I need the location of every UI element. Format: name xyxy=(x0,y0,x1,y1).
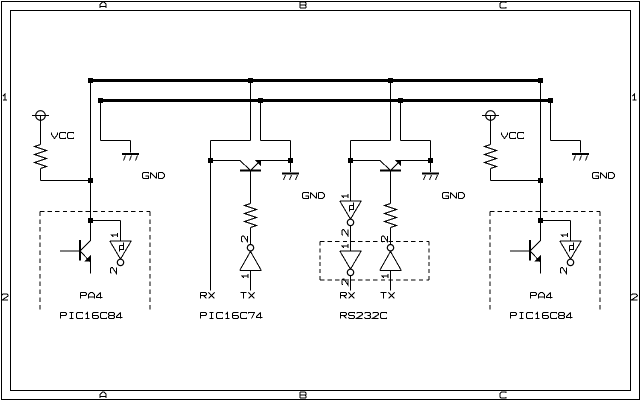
PIC16C74 label xyxy=(201,313,263,319)
inverter U5 C tx (output top) xyxy=(380,269,402,271)
junction B ground node xyxy=(288,158,293,163)
wire B collector branch horizontal xyxy=(211,140,251,142)
junction pull-up node right xyxy=(538,178,543,183)
wire resistor to inverter B xyxy=(250,228,252,245)
transistor Q2 emitter arrow xyxy=(255,160,261,166)
wire B ground lead xyxy=(290,163,292,173)
transistor Q2 collector xyxy=(240,161,250,171)
dashed box left PIC16C84 right edge xyxy=(149,212,151,311)
pin number 2 inverter C rx upper xyxy=(342,230,348,236)
ground symbol C xyxy=(422,173,439,175)
transistor Q1 base lead xyxy=(60,250,79,252)
wire resistor to bus drop right xyxy=(491,180,541,182)
RS232C label xyxy=(341,313,387,319)
wire C emitter branch horizontal xyxy=(401,140,431,142)
pin number 2 inverter C tx xyxy=(382,236,388,242)
wire resistor lead down right xyxy=(490,169,492,181)
transistor Q2 emitter xyxy=(251,161,261,171)
wire lower bus drop left xyxy=(100,101,102,141)
wire TX lead C xyxy=(390,270,392,290)
junction lower bus at C section xyxy=(398,98,403,103)
wire upper bus drop B xyxy=(250,81,252,141)
wire B emitter branch down xyxy=(290,141,292,161)
wire VCC to resistor right xyxy=(490,116,492,145)
bus wire upper (party line) xyxy=(91,79,541,82)
transistor Q3 emitter arrow xyxy=(395,160,401,166)
wire upper bus drop C xyxy=(390,81,392,141)
wire ground lead left xyxy=(130,141,132,153)
border column label B bottom xyxy=(300,392,306,398)
junction upper bus at B section xyxy=(248,78,253,83)
transistor Q1 collector xyxy=(81,241,91,251)
bus wire lower (ground line) xyxy=(101,99,551,102)
PIC16C84 label right xyxy=(511,313,573,319)
border row label 2 left xyxy=(2,294,8,300)
ground symbol B xyxy=(282,173,299,175)
transistor Q1 emitter arrow xyxy=(85,255,91,261)
junction lower bus right end xyxy=(548,98,553,103)
border row label 2 right xyxy=(631,294,637,300)
GND label right xyxy=(593,173,615,179)
PA4 label left xyxy=(81,293,103,299)
wire to ground left xyxy=(101,140,131,142)
border column label A bottom xyxy=(100,392,106,398)
wire resistor to inverter C xyxy=(390,228,392,245)
junction B bus tap xyxy=(208,158,213,163)
ground symbol right xyxy=(572,153,589,155)
resistor base C xyxy=(385,204,397,228)
wire inverter input lead right xyxy=(570,221,572,241)
PA4 label right xyxy=(531,293,553,299)
transistor Q4 base lead xyxy=(510,250,529,252)
resistor base B xyxy=(245,204,257,228)
transistor Q4 emitter xyxy=(531,252,541,263)
wire resistor to bus drop xyxy=(41,180,91,182)
resistor pull-up right xyxy=(485,145,497,169)
border column label B top xyxy=(300,2,306,8)
inverter U1 left (input top) xyxy=(110,240,132,242)
wire B emitter to ground node xyxy=(261,160,291,162)
dashed box left PIC16C84 top edge xyxy=(40,211,150,213)
VCC label right xyxy=(502,133,524,139)
pin number 1 inverter C rx lower xyxy=(342,244,348,248)
inverter U6 right (input top) xyxy=(560,240,582,242)
transistor Q3 base bar xyxy=(380,170,401,172)
junction C bus tap xyxy=(348,158,353,163)
transistor Q1 emitter xyxy=(81,252,91,263)
wire C to collector xyxy=(351,160,381,162)
wire C emitter to ground node xyxy=(401,160,431,162)
inverter U3 C rx upper (input top) xyxy=(340,200,362,202)
pin number 1 inverter B xyxy=(242,274,248,278)
transistor Q3 collector xyxy=(380,161,390,171)
wire C RX top lead xyxy=(350,163,352,201)
RX label C xyxy=(341,293,355,299)
dashed box right PIC16C84 left edge xyxy=(489,212,491,311)
pin number 1 inverter right xyxy=(561,233,567,237)
resistor pull-up left xyxy=(35,145,47,169)
gate marking inside inverter left xyxy=(120,243,124,252)
wire RX line B xyxy=(210,163,212,291)
border row label 1 left xyxy=(3,94,7,100)
wire B collector branch down xyxy=(210,141,212,161)
gate marking inside inverter right xyxy=(570,243,574,252)
pin number 2 inverter C rx lower xyxy=(342,279,348,285)
transistor Q4 emitter arrow xyxy=(535,255,541,261)
VCC supply symbol right xyxy=(486,111,496,121)
junction upper bus left end xyxy=(88,78,93,83)
wire lower bus drop C xyxy=(400,101,402,141)
ground symbol left xyxy=(122,153,139,155)
pin number 1 inverter C tx xyxy=(382,274,388,278)
border column label C top xyxy=(500,2,506,8)
wire node to inverter right xyxy=(541,220,571,222)
junction pull-up node left xyxy=(88,178,93,183)
VCC label left xyxy=(52,133,74,139)
TX label B xyxy=(241,293,255,299)
transistor Q4 base bar xyxy=(529,240,531,261)
wire inverter input lead left xyxy=(120,221,122,241)
dashed box right PIC16C84 top edge xyxy=(490,211,600,213)
wire ground lead right xyxy=(580,141,582,153)
GND label left xyxy=(143,173,165,179)
wire upper bus drop left xyxy=(90,81,92,221)
GND label B xyxy=(303,193,325,199)
TX label C xyxy=(381,293,395,299)
pin number 2 inverter left xyxy=(110,268,116,274)
wire C collector branch horizontal xyxy=(351,140,391,142)
VCC supply symbol left xyxy=(36,111,46,121)
transistor Q2 base bar xyxy=(240,170,261,172)
PIC16C84 label left xyxy=(61,313,123,319)
wire C collector branch down xyxy=(350,141,352,161)
junction upper bus at C section xyxy=(388,78,393,83)
wire C ground lead xyxy=(430,163,432,173)
wire to ground right xyxy=(551,140,581,142)
wire B emitter branch horizontal xyxy=(261,140,291,142)
transistor Q3 emitter xyxy=(391,161,401,171)
wire Q3 base lead xyxy=(390,172,392,204)
GND label C xyxy=(443,193,465,199)
border column label A top xyxy=(100,2,106,8)
pin number 1 inverter C rx upper xyxy=(342,194,348,198)
pin number 2 inverter B xyxy=(242,236,248,242)
junction C ground node xyxy=(428,158,433,163)
dashed box left PIC16C84 left edge xyxy=(39,212,41,311)
pin number 2 inverter right xyxy=(560,268,566,274)
junction node PA4 right xyxy=(538,218,543,223)
wire C emitter branch down xyxy=(430,141,432,161)
dashed box right PIC16C84 right edge xyxy=(599,212,601,311)
wire lower bus drop B xyxy=(260,101,262,141)
wire VCC to resistor xyxy=(40,116,42,145)
inverter U4 C rx lower (input top) xyxy=(340,250,362,252)
transistor Q1 left base bar xyxy=(79,240,81,261)
border column label C bottom xyxy=(500,392,506,398)
wire between rx inverters C xyxy=(350,225,352,251)
transistor Q4 collector xyxy=(531,241,541,251)
wire Q2 base lead xyxy=(250,172,252,204)
wire lower bus drop right xyxy=(550,101,552,141)
wire resistor lead down xyxy=(40,169,42,181)
junction lower bus at B section xyxy=(258,98,263,103)
junction node PA4 left xyxy=(88,218,93,223)
wire node to inverter left xyxy=(91,220,121,222)
inverter U2 B (output top) xyxy=(240,269,262,271)
junction lower bus left end xyxy=(98,98,103,103)
RX label B xyxy=(201,293,215,299)
wire upper bus drop right xyxy=(540,81,542,221)
wire TX lead B xyxy=(250,270,252,290)
wire RX line C xyxy=(350,275,352,290)
gate marking inside inverter C xyxy=(350,203,354,212)
dashed box RS232C xyxy=(320,241,429,243)
pin number 1 inverter left xyxy=(111,233,117,237)
junction upper bus right end xyxy=(538,78,543,83)
border row label 1 right xyxy=(632,94,636,100)
wire B to collector xyxy=(211,160,241,162)
